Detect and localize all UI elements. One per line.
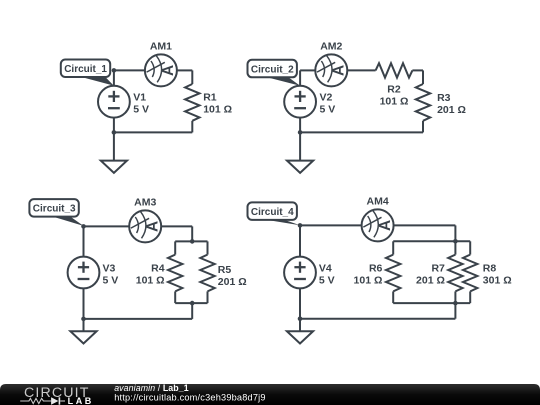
wire to R4 xyxy=(174,241,176,254)
voltage source V4 xyxy=(284,257,316,289)
wire R2 to corner xyxy=(412,69,423,71)
ammeter AM1 xyxy=(145,54,177,86)
svg-text:5 V: 5 V xyxy=(133,103,149,115)
wire down to top rail xyxy=(191,226,193,241)
wire V3 bottom xyxy=(83,288,85,319)
svg-text:A: A xyxy=(144,221,161,232)
wire R1 to bottom xyxy=(191,121,193,133)
wire R4 bottom xyxy=(174,291,176,303)
svg-text:A: A xyxy=(160,65,177,76)
junction node circuit 4 top xyxy=(298,223,303,228)
junction node rail4 bottom xyxy=(453,301,458,306)
svg-text:201 Ω: 201 Ω xyxy=(416,275,445,287)
wire top rail circuit 4 xyxy=(393,240,470,242)
svg-text:R5: R5 xyxy=(218,264,232,276)
svg-text:Circuit_3: Circuit_3 xyxy=(33,204,76,215)
svg-text:201 Ω: 201 Ω xyxy=(437,104,466,116)
resistor R1 xyxy=(185,84,199,121)
svg-text:V4: V4 xyxy=(319,262,332,274)
wire to ground 3 xyxy=(83,319,85,331)
svg-text:http://circuitlab.com/c3eh39ba: http://circuitlab.com/c3eh39ba8d7j9 xyxy=(114,392,266,402)
node label Circuit_1 xyxy=(61,60,114,86)
svg-text:101 Ω: 101 Ω xyxy=(380,96,409,108)
svg-text:301 Ω: 301 Ω xyxy=(483,275,512,287)
resistor R8 xyxy=(463,255,477,292)
svg-text:V2: V2 xyxy=(320,91,333,103)
wire node to AM1 xyxy=(114,69,145,71)
wire AM3 to branch xyxy=(161,225,192,227)
resistor R2 xyxy=(376,63,413,77)
svg-text:R7: R7 xyxy=(431,263,445,275)
voltage source V1 xyxy=(98,86,130,118)
ground circuit 3 xyxy=(70,331,96,343)
wire rail4 to bottom xyxy=(454,303,456,319)
junction node circuit 4 bottom xyxy=(298,316,303,321)
svg-text:5 V: 5 V xyxy=(103,274,119,286)
wire V4 bottom xyxy=(299,288,301,318)
wire V1 bottom xyxy=(113,118,115,133)
wire to ground xyxy=(113,132,115,160)
junction node circuit 3 top xyxy=(81,224,86,229)
wire node to V1 top xyxy=(113,70,115,85)
svg-text:201 Ω: 201 Ω xyxy=(218,276,247,288)
wire node to AM4 xyxy=(300,224,362,226)
node label Circuit_3 xyxy=(29,199,83,226)
ground circuit 1 xyxy=(101,161,127,173)
svg-text:R2: R2 xyxy=(387,84,401,96)
junction node rail4 top xyxy=(453,239,458,244)
svg-text:5 V: 5 V xyxy=(320,103,336,115)
wire R3 to bottom xyxy=(422,121,424,133)
svg-text:AM1: AM1 xyxy=(150,40,172,52)
wire to AM2 xyxy=(300,69,315,71)
wire bottom circuit 3 xyxy=(84,318,193,320)
wire R5 bottom xyxy=(207,291,209,303)
svg-text:V3: V3 xyxy=(103,262,116,274)
wire AM2 to R2 xyxy=(347,69,375,71)
resistor R6 xyxy=(386,255,400,292)
svg-text:R1: R1 xyxy=(203,91,217,103)
svg-text:AM2: AM2 xyxy=(320,40,342,52)
svg-text:101 Ω: 101 Ω xyxy=(354,275,383,287)
svg-text:R8: R8 xyxy=(483,263,497,275)
wire to R8 xyxy=(469,241,471,254)
junction node circuit 3 bottom xyxy=(81,317,86,322)
wire R7 bottom xyxy=(454,291,456,303)
svg-text:5 V: 5 V xyxy=(319,274,335,286)
svg-text:Circuit_1: Circuit_1 xyxy=(64,64,107,75)
svg-text:101 Ω: 101 Ω xyxy=(203,103,232,115)
wire down to R3 xyxy=(422,70,424,84)
junction node circuit 1 bottom xyxy=(112,130,117,135)
svg-text:LAB: LAB xyxy=(68,396,94,405)
voltage source V3 xyxy=(68,257,100,289)
wire node to AM3 xyxy=(84,225,130,227)
wire bottom rail xyxy=(114,131,192,133)
wire AM1 to R1 branch xyxy=(177,69,192,71)
svg-text:V1: V1 xyxy=(133,91,146,103)
wire rail to bottom xyxy=(191,303,193,319)
svg-text:R3: R3 xyxy=(437,92,451,104)
resistor R5 xyxy=(200,255,214,292)
ammeter AM2 xyxy=(315,54,347,86)
resistor R7 xyxy=(448,255,462,292)
wire node to V3 top xyxy=(83,226,85,256)
node label Circuit_2 xyxy=(248,60,301,86)
svg-text:R4: R4 xyxy=(151,263,165,275)
svg-text:AM3: AM3 xyxy=(134,196,156,208)
wire bottom rail circuit 4 xyxy=(393,302,470,304)
voltage source V2 xyxy=(284,86,316,118)
wire V2 top xyxy=(299,70,301,85)
resistor R4 xyxy=(168,255,182,292)
wire V2 bottom xyxy=(299,118,301,133)
junction node rail top xyxy=(190,239,195,244)
node label Circuit_4 xyxy=(248,202,301,225)
wire R6 bottom xyxy=(392,291,394,303)
wire to ground 2 xyxy=(299,132,301,160)
svg-text:R6: R6 xyxy=(369,263,383,275)
wire down to rail 4 xyxy=(454,225,456,241)
ground circuit 2 xyxy=(287,161,313,173)
wire R8 bottom xyxy=(469,291,471,303)
wire to R5 xyxy=(207,241,209,254)
CircuitLab logo diode arrow xyxy=(51,397,58,404)
wire top rail circuit 3 xyxy=(175,240,207,242)
ground circuit 4 xyxy=(287,331,313,343)
ammeter AM4 xyxy=(362,209,394,241)
wire to ground 4 xyxy=(299,319,301,332)
svg-text:A: A xyxy=(377,220,394,231)
wire AM4 to branch xyxy=(394,224,456,226)
svg-text:AM4: AM4 xyxy=(367,196,389,208)
svg-text:avaniamin / Lab_1: avaniamin / Lab_1 xyxy=(114,383,189,393)
wire to R7 xyxy=(454,241,456,254)
CircuitLab logo resistor squiggle xyxy=(20,398,51,403)
wire bottom rail circuit 3 xyxy=(175,302,207,304)
junction node circuit 2 bottom xyxy=(298,130,303,135)
wire node to V4 top xyxy=(299,225,301,256)
resistor R3 xyxy=(416,84,430,121)
svg-text:Circuit_4: Circuit_4 xyxy=(251,207,294,218)
junction node circuit 1 top xyxy=(112,68,117,73)
svg-text:101 Ω: 101 Ω xyxy=(136,275,165,287)
ammeter AM3 xyxy=(129,210,161,242)
svg-text:A: A xyxy=(331,65,348,76)
wire down to R1 xyxy=(191,70,193,84)
wire to R6 xyxy=(392,241,394,254)
wire bottom rail circuit 2 xyxy=(300,131,423,133)
svg-text:Circuit_2: Circuit_2 xyxy=(251,64,294,75)
junction node rail bottom xyxy=(190,301,195,306)
wire bottom circuit 4 xyxy=(300,318,455,320)
